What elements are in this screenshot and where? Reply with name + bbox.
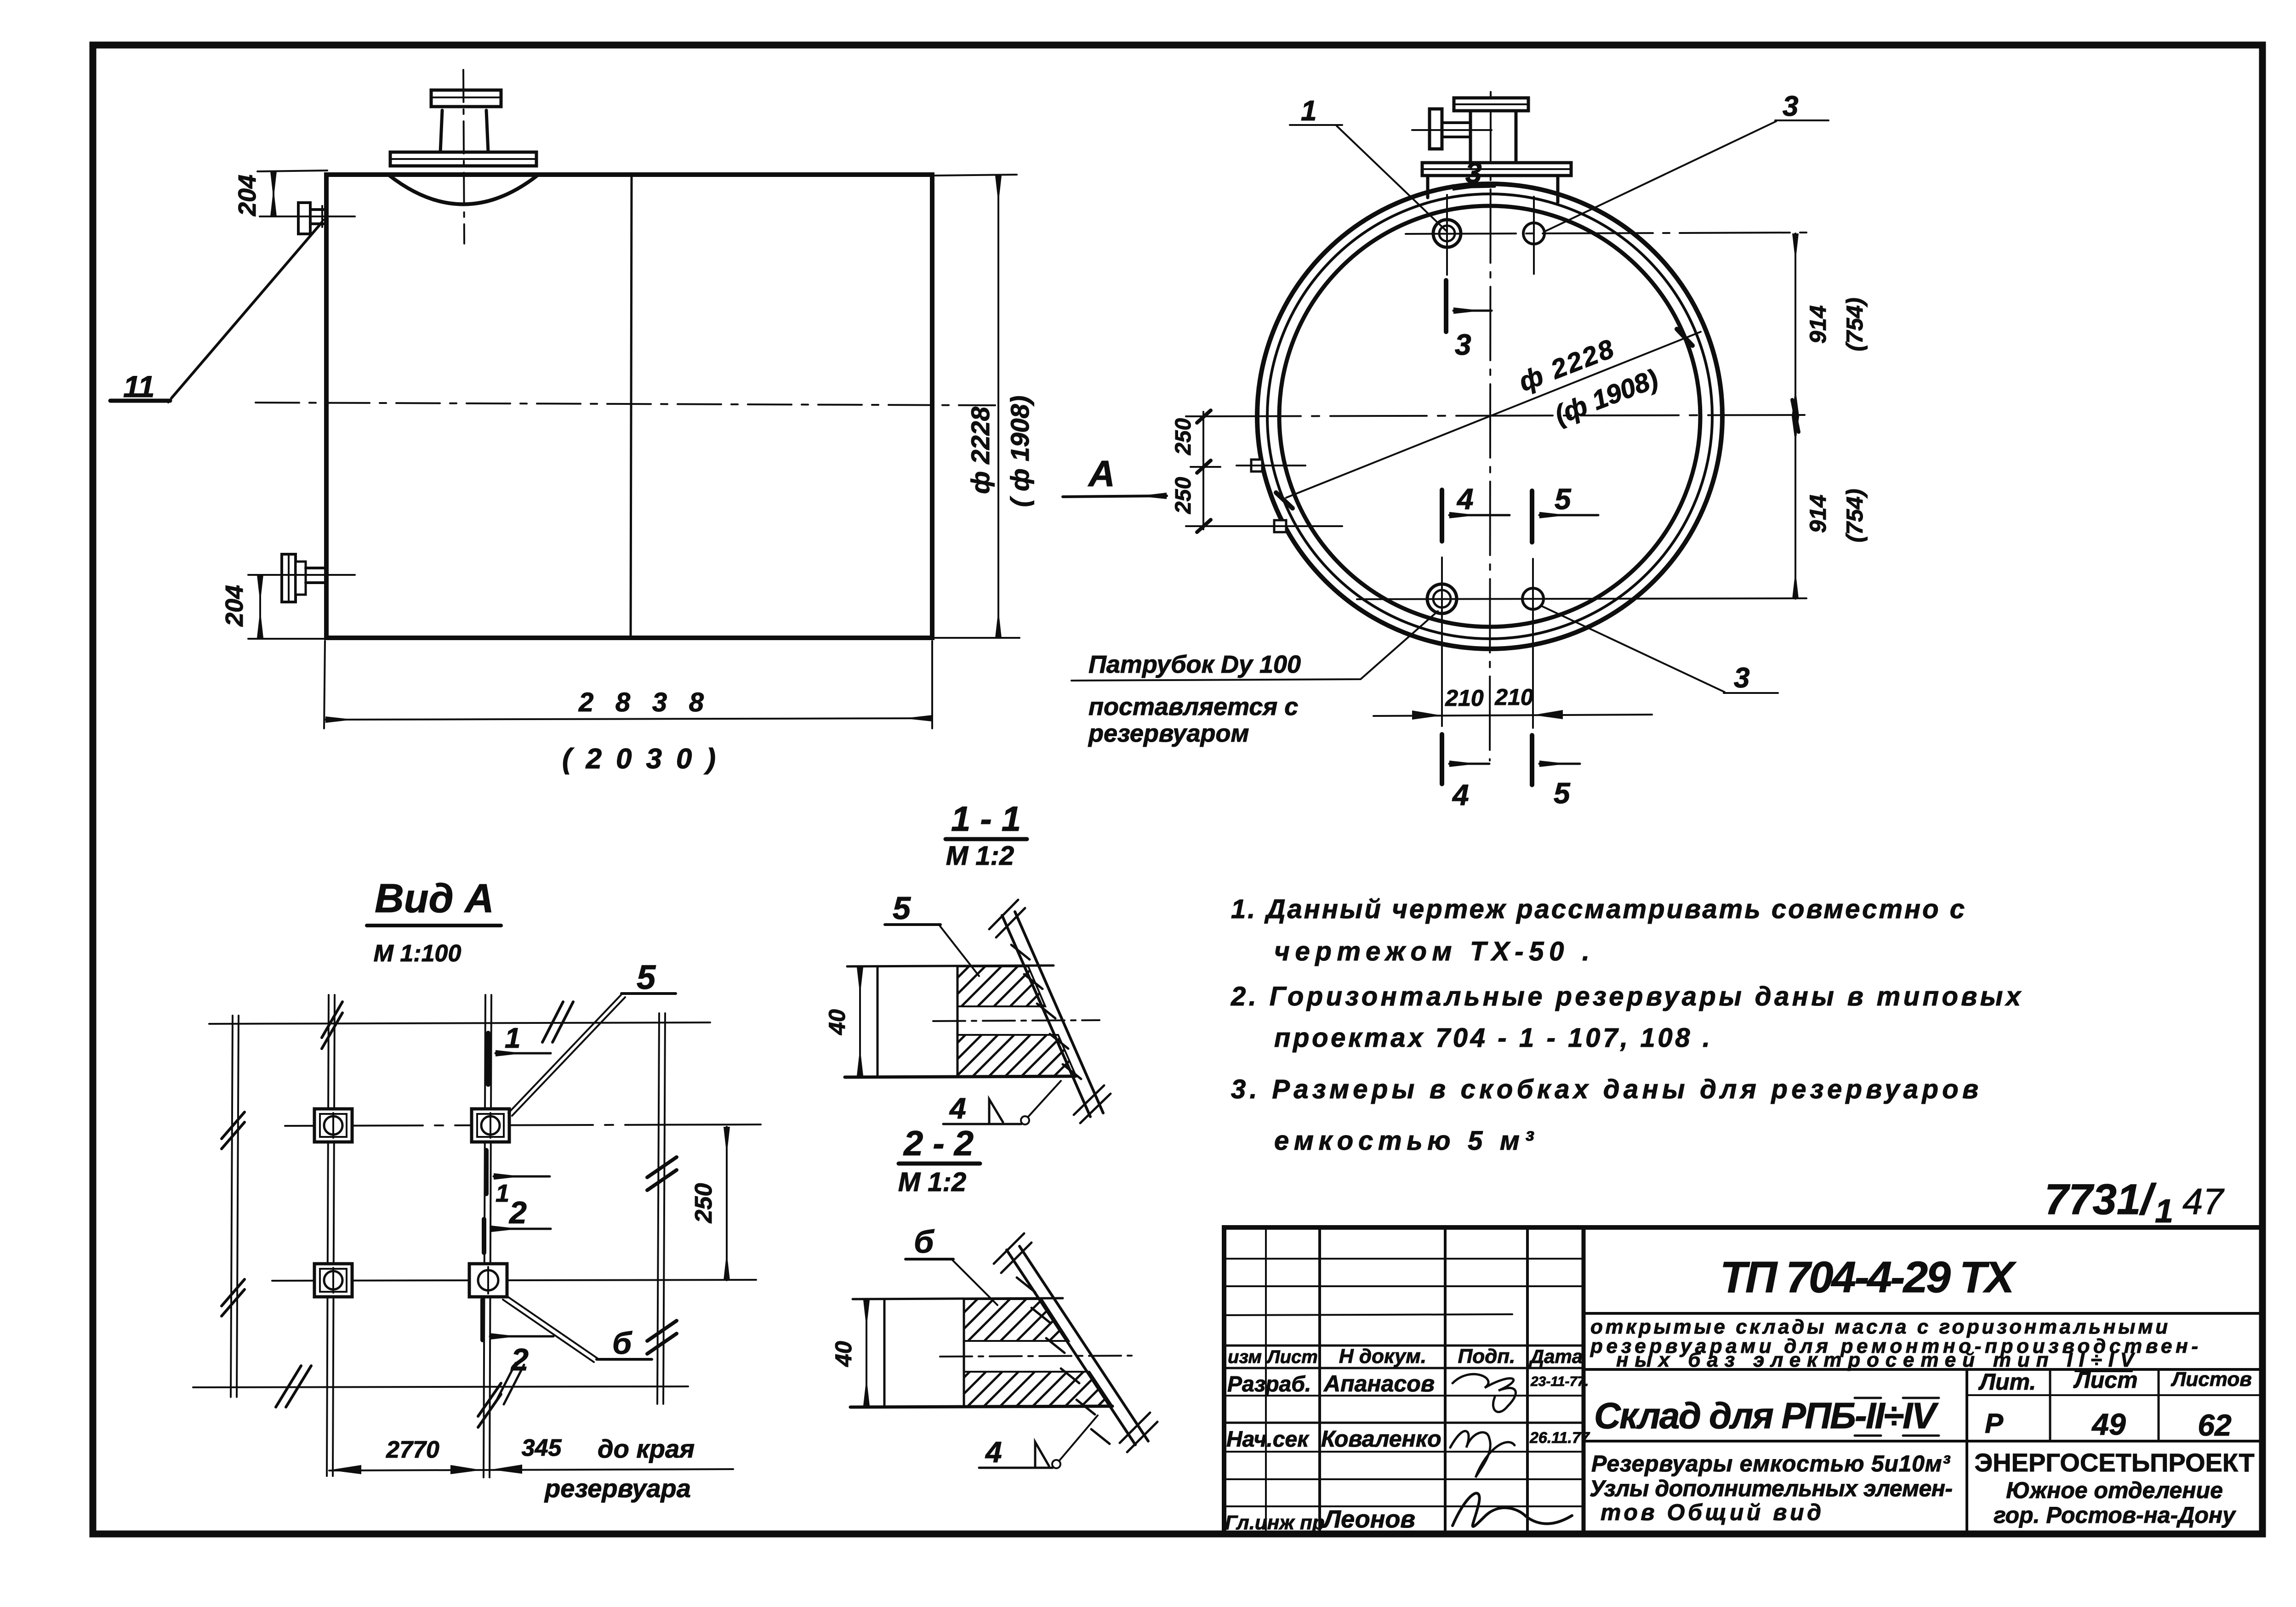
section 2-2 title — [898, 1124, 980, 1197]
divider under name — [1584, 1368, 2262, 1371]
divider above subtitle — [1584, 1440, 2262, 1442]
section mark 3 top — [1453, 156, 1495, 189]
nozzle top-left centerline — [260, 216, 355, 217]
leader 5 viewA — [508, 958, 676, 1116]
svg-text:чертежом ТХ-50 .: чертежом ТХ-50 . — [1274, 937, 1590, 966]
dimension 250 250 — [1171, 410, 1223, 532]
svg-text:5: 5 — [637, 958, 656, 996]
end view side nozzle pipe — [1442, 123, 1470, 137]
column ndokum — [1444, 1227, 1447, 1534]
svg-text:4: 4 — [949, 1092, 966, 1125]
svg-text:Лит.: Лит. — [1978, 1369, 2036, 1395]
svg-text:914: 914 — [1805, 305, 1831, 343]
svg-text:1: 1 — [505, 1022, 520, 1054]
svg-text:2838: 2838 — [578, 687, 704, 717]
column izm — [1265, 1227, 1267, 1534]
svg-text:ных баз электросетей: ных баз электросетей тип II÷IV — [1616, 1349, 2136, 1371]
leader 11 — [110, 220, 324, 403]
svg-text:49: 49 — [2091, 1407, 2126, 1441]
column podp — [1526, 1227, 1529, 1534]
svg-text:3: 3 — [1734, 662, 1749, 694]
section mark 4 low — [1442, 734, 1489, 812]
svg-text:250: 250 — [1171, 477, 1196, 514]
svg-text:11: 11 — [123, 369, 155, 403]
dimension 204 bottom — [221, 575, 327, 639]
svg-text:40: 40 — [831, 1341, 856, 1367]
nozzle hole bottom-left — [1427, 557, 1457, 642]
weld seam — [631, 176, 632, 637]
sec1 pad outline — [845, 965, 1076, 1077]
sec1 hatch upper — [957, 966, 1045, 1006]
end view manhole pipe — [1470, 110, 1516, 163]
svg-text:поставляется с: поставляется с — [1088, 693, 1298, 721]
dimension 2838 — [324, 641, 932, 728]
manhole neck — [440, 110, 488, 152]
section mark 3 below — [1446, 280, 1492, 361]
end view side nozzle flange — [1430, 109, 1442, 149]
svg-text:47: 47 — [2182, 1181, 2224, 1222]
section mark 5 low — [1532, 735, 1580, 810]
svg-text:Нач.сек: Нач.сек — [1226, 1427, 1310, 1452]
svg-text:Дата: Дата — [1529, 1346, 1583, 1367]
signature glinzh — [1453, 1493, 1572, 1526]
nozzle bottom-left flange — [282, 554, 306, 602]
rail D — [647, 1013, 677, 1404]
sklad title — [1594, 1395, 1939, 1436]
svg-text:Разраб.: Разраб. — [1227, 1372, 1311, 1397]
svg-text:М 1:2: М 1:2 — [946, 841, 1014, 871]
svg-text:Коваленко: Коваленко — [1321, 1426, 1441, 1452]
manhole dome — [389, 175, 538, 204]
note patrubok leader — [1071, 611, 1438, 681]
top rail line — [209, 1002, 710, 1042]
view A title — [367, 875, 501, 926]
anchor plate C1 — [472, 1109, 509, 1142]
rail A — [222, 1016, 245, 1397]
section mark 2 low viewA — [483, 1300, 553, 1404]
svg-text:62: 62 — [2198, 1408, 2232, 1442]
svg-text:(2030): (2030) — [562, 743, 716, 775]
svg-text:Леонов: Леонов — [1322, 1505, 1415, 1533]
view arrow A — [1063, 453, 1167, 497]
svg-text:гор. Ростов-на-Дону: гор. Ростов-на-Дону — [1994, 1502, 2236, 1528]
svg-text:ф 2228: ф 2228 — [966, 406, 995, 494]
weld mark 4 sec1 — [943, 1081, 1061, 1125]
nozzle top-left pipe — [310, 206, 327, 227]
svg-text:ЭНЕРГОСЕТЬПРОЕКТ: ЭНЕРГОСЕТЬПРОЕКТ — [1974, 1448, 2254, 1477]
svg-text:(754): (754) — [1842, 489, 1868, 543]
svg-text:1 - 1: 1 - 1 — [951, 800, 1021, 839]
svg-text:345: 345 — [522, 1435, 562, 1461]
signature nachsek — [1450, 1431, 1515, 1477]
svg-text:210: 210 — [1445, 685, 1484, 711]
svg-text:емкостью 5 м³: емкостью 5 м³ — [1274, 1126, 1534, 1156]
svg-text:4: 4 — [1452, 778, 1469, 812]
svg-text:210: 210 — [1494, 684, 1533, 710]
svg-text:б: б — [612, 1326, 632, 1361]
svg-text:26.11.77: 26.11.77 — [1529, 1429, 1590, 1447]
right part top divider — [1584, 1312, 2262, 1315]
svg-text:тов Общий вид: тов Общий вид — [1601, 1499, 1821, 1525]
svg-text:23-11-77.: 23-11-77. — [1530, 1374, 1589, 1389]
svg-text:Р: Р — [1985, 1408, 2004, 1439]
dimension 204 top — [234, 170, 327, 216]
svg-text:Южное отделение: Южное отделение — [2006, 1477, 2223, 1503]
leader 6 viewA — [503, 1296, 652, 1362]
svg-text:Патрубок Dy 100: Патрубок Dy 100 — [1088, 651, 1301, 678]
end view manhole flange legs — [1428, 176, 1558, 202]
sklad cell divider — [1966, 1369, 1968, 1534]
svg-text:1: 1 — [2155, 1193, 2173, 1230]
svg-text:(754): (754) — [1842, 298, 1868, 352]
sec2 hatch lower — [964, 1372, 1112, 1406]
weld mark 4 sec2 — [979, 1415, 1098, 1469]
nozzle bottom-left centerline — [248, 574, 355, 576]
tank axis centerline — [256, 403, 995, 405]
anchor row1 line — [285, 1124, 761, 1126]
section 1-1 title — [946, 800, 1027, 871]
diameter leader f2228 — [1276, 329, 1701, 508]
rail C — [478, 995, 501, 1477]
section mark 4 mid — [1442, 483, 1510, 541]
signature razrab — [1453, 1374, 1515, 1412]
svg-text:проектах 704 - 1 - 107, 108: проектах 704 - 1 - 107, 108 . — [1274, 1023, 1710, 1053]
svg-text:Подп.: Подп. — [1458, 1345, 1515, 1368]
manhole top flange — [431, 90, 501, 107]
dimension 250 viewA — [690, 1127, 727, 1280]
svg-text:3. Размеры в скобках даны: 3. Размеры в скобках даны для резервуаро… — [1231, 1074, 1978, 1104]
dimension do kraya text — [544, 1434, 695, 1503]
svg-text:7731/: 7731/ — [2045, 1175, 2157, 1223]
dimension 40 sec1 — [824, 967, 860, 1076]
dimension 2770 — [329, 1437, 733, 1474]
end view manhole flange — [1422, 163, 1571, 176]
column list — [1318, 1227, 1321, 1534]
svg-text:914: 914 — [1805, 494, 1831, 533]
tank end view outer shell — [1257, 184, 1722, 649]
svg-text:3: 3 — [1783, 91, 1798, 122]
svg-text:2770: 2770 — [386, 1437, 439, 1463]
sec1 bolt centerline — [933, 1020, 1100, 1021]
svg-text:1: 1 — [1301, 95, 1316, 127]
row lines left table — [1224, 1258, 1584, 1260]
svg-text:2. Горизонтальные резервуар: 2. Горизонтальные резервуары даны в типо… — [1231, 982, 2022, 1011]
dimension 210 210 — [1373, 642, 1652, 728]
left table right edge — [1582, 1227, 1586, 1534]
end view manhole top flange — [1454, 98, 1528, 111]
tank side view shell — [326, 175, 932, 638]
anchor plate B2 — [314, 1264, 352, 1297]
shell lug lower — [1219, 520, 1342, 532]
label 5 sec1 — [885, 890, 979, 976]
label b sec2 — [906, 1224, 997, 1305]
top holes centerline — [1406, 233, 1806, 234]
svg-text:Узлы дополнительных элемен-: Узлы дополнительных элемен- — [1590, 1476, 1953, 1501]
svg-text:Листов: Листов — [2171, 1368, 2252, 1391]
sec1 hatch lower — [957, 1035, 1076, 1076]
leader 3 bottom-right — [1541, 606, 1778, 694]
tank end view inner ring — [1279, 206, 1700, 627]
svg-text:Н докум.: Н докум. — [1339, 1345, 1426, 1368]
svg-text:Лист: Лист — [1266, 1347, 1318, 1367]
dimension f2228 side — [935, 175, 1020, 638]
dimension 914 754 right — [1792, 233, 1868, 599]
svg-text:резервуаром: резервуаром — [1088, 720, 1249, 747]
svg-text:2 - 2: 2 - 2 — [903, 1124, 974, 1163]
svg-text:Резервуары емкостью 5и10м³: Резервуары емкостью 5и10м³ — [1591, 1451, 1950, 1476]
end view vertical centerline — [1490, 92, 1491, 761]
svg-text:250: 250 — [690, 1183, 717, 1224]
svg-text:М 1:2: М 1:2 — [898, 1167, 966, 1197]
bottom rail line — [193, 1366, 688, 1407]
tank end view shell inner — [1267, 194, 1712, 639]
svg-text:ТП 704-4-29 ТХ: ТП 704-4-29 ТХ — [1720, 1253, 2017, 1302]
anchor plate C2 — [469, 1264, 507, 1297]
svg-text:( ф 1908): ( ф 1908) — [1005, 396, 1034, 507]
manhole centerline — [463, 70, 464, 244]
title block — [1224, 1227, 2262, 1534]
section mark 2 mid viewA — [484, 1195, 551, 1253]
svg-text:Лист: Лист — [2073, 1367, 2137, 1393]
anchor row2 line — [272, 1280, 756, 1281]
shell lug upper — [1236, 460, 1305, 471]
hole 3 top-right — [1523, 197, 1544, 274]
nozzle bottom-left pipe — [306, 568, 326, 583]
leader 3 top-right — [1544, 91, 1829, 232]
svg-text:до края: до края — [598, 1434, 695, 1463]
section mark 1 mid viewA — [486, 1150, 550, 1207]
end view horizontal centerline — [1204, 415, 1809, 416]
svg-text:3: 3 — [1455, 328, 1471, 361]
sec2 bolt centerline — [940, 1356, 1132, 1357]
section mark 1 top viewA — [488, 1022, 551, 1085]
hole bottom-right — [1522, 559, 1544, 641]
svg-text:резервуара: резервуара — [544, 1474, 691, 1503]
nozzle top-left flange — [298, 203, 310, 234]
sec2 pad outline — [850, 1298, 1112, 1407]
svg-text:4: 4 — [985, 1436, 1002, 1469]
anchor plate B1 — [314, 1109, 352, 1142]
svg-text:1. Данный чертеж рассматрив: 1. Данный чертеж рассматривать совместно… — [1231, 894, 1965, 924]
svg-text:204: 204 — [234, 175, 261, 216]
svg-text:изм: изм — [1228, 1347, 1262, 1367]
svg-text:40: 40 — [824, 1009, 850, 1035]
svg-text:204: 204 — [221, 585, 248, 627]
svg-text:2: 2 — [508, 1195, 527, 1230]
section mark 5 mid — [1532, 483, 1598, 542]
svg-text:М 1:100: М 1:100 — [374, 940, 461, 967]
svg-text:Вид А: Вид А — [375, 875, 494, 921]
svg-text:5: 5 — [1554, 777, 1571, 810]
svg-text:Склад для РПБ-II÷IV: Склад для РПБ-II÷IV — [1594, 1395, 1939, 1436]
svg-text:Апанасов: Апанасов — [1323, 1371, 1435, 1397]
sec2 hatch upper — [964, 1299, 1069, 1341]
dimension 40 sec2 — [831, 1300, 866, 1406]
svg-text:250: 250 — [1171, 418, 1196, 455]
svg-text:б: б — [914, 1224, 934, 1260]
rail B — [322, 995, 342, 1476]
svg-text:А: А — [1088, 453, 1115, 494]
bottom holes centerline — [1357, 598, 1806, 599]
svg-text:4: 4 — [1456, 483, 1474, 516]
note patrubok text — [1088, 651, 1301, 747]
end view side nozzle centerline — [1412, 129, 1492, 131]
svg-text:5: 5 — [1555, 483, 1572, 516]
svg-text:5: 5 — [893, 890, 911, 926]
svg-text:1: 1 — [496, 1180, 509, 1207]
manhole flange — [390, 152, 536, 166]
sec2 shell strip — [994, 1233, 1157, 1452]
nozzle hole 1 top-left — [1433, 195, 1461, 275]
sec1 shell strip — [989, 900, 1111, 1123]
lit list listov headers — [1967, 1367, 2262, 1441]
svg-text:Гл.инж пр: Гл.инж пр — [1225, 1511, 1325, 1534]
svg-text:3: 3 — [1465, 156, 1482, 189]
leader 1 — [1290, 95, 1446, 231]
